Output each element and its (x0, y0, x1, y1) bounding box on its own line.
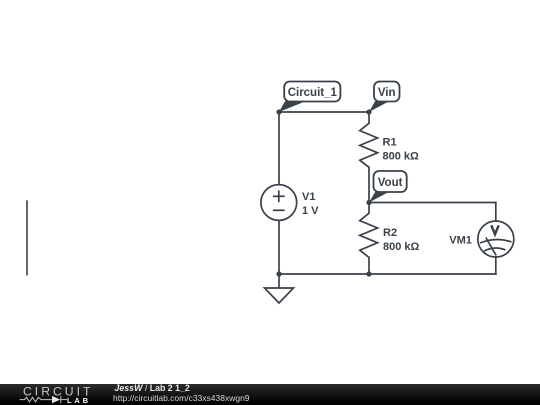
stray wire at canvas left (26, 201, 28, 274)
node dot Vin (366, 109, 371, 114)
CircuitLab logo (0, 384, 110, 405)
node dot bottom mid (366, 271, 371, 276)
svg-text:R2: R2 (383, 227, 397, 239)
wire VM1 top lead (495, 203, 497, 222)
footer title text (115, 384, 190, 393)
svg-text:Vin: Vin (378, 87, 396, 99)
svg-text:800 kΩ: 800 kΩ (383, 151, 420, 163)
wire R1 to Vout node (368, 167, 370, 202)
svg-text:Circuit_1: Circuit_1 (288, 87, 338, 99)
wire Vout rail to voltmeter (369, 202, 496, 204)
voltage source V1 (261, 185, 297, 221)
svg-text:V1: V1 (302, 191, 315, 203)
svg-text:1 V: 1 V (302, 205, 319, 217)
wire V1 bottom lead (278, 220, 280, 274)
svg-text:VM1: VM1 (449, 235, 472, 247)
svg-text:Vout: Vout (378, 177, 403, 189)
wire R2 bottom lead (368, 257, 370, 274)
ground (265, 274, 294, 303)
wire Vout node to R2 (368, 203, 370, 214)
net label Circuit_1 (279, 82, 340, 113)
net label Vin (369, 82, 400, 113)
svg-text:LAB: LAB (67, 396, 91, 405)
net label Vout (369, 171, 407, 203)
node dot Circuit_1 (276, 109, 281, 114)
voltmeter V glyph (491, 225, 498, 234)
svg-text:R1: R1 (383, 137, 397, 149)
R2 value label (383, 227, 420, 253)
wire bottom rail (279, 273, 496, 275)
V1 value label (302, 191, 319, 217)
footer url text (113, 394, 250, 403)
R1 value label (383, 137, 420, 163)
resistor R2 (360, 213, 378, 257)
voltmeter VM1 (478, 221, 514, 257)
wire VM1 bottom lead (495, 257, 497, 274)
footer bar (0, 384, 540, 405)
wire top rail Circuit_1 to Vin (279, 111, 369, 113)
resistor R1 (360, 123, 378, 167)
wire R1 top lead (368, 112, 370, 123)
wire V1 top lead (278, 112, 280, 185)
svg-text:800 kΩ: 800 kΩ (383, 241, 420, 253)
node dot Vout (366, 200, 371, 205)
node dot bottom left (276, 271, 281, 276)
